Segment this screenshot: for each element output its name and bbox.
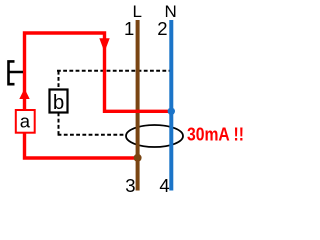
junction dot on N — [168, 108, 175, 115]
wire: dashed link to toroid — [58, 134, 126, 136]
N conductor (blue) — [169, 20, 173, 191]
toroid ellipse (RCD core) — [126, 125, 183, 147]
wire: red fault loop (top + right + to N) — [25, 33, 170, 111]
wire: dashed horizontal run from b to N line — [57, 70, 173, 72]
junction dot on L — [134, 154, 142, 162]
svg-text:4: 4 — [159, 175, 169, 196]
earth electrode symbol — [7, 60, 23, 85]
device box b — [50, 90, 68, 113]
device box a — [16, 110, 35, 133]
svg-text:2: 2 — [157, 18, 167, 39]
L conductor (brown) — [136, 20, 140, 191]
svg-text:b: b — [53, 91, 64, 114]
arrow up on left red wire — [19, 89, 29, 100]
arrow down on right red wire — [99, 38, 109, 52]
wire: dashed link from b down — [58, 113, 60, 135]
wire: red from box a down and along bottom to L — [25, 132, 138, 158]
svg-text:3: 3 — [125, 175, 135, 196]
svg-text:1: 1 — [124, 18, 134, 39]
svg-text:30mA !!: 30mA !! — [187, 124, 244, 145]
svg-text:a: a — [20, 110, 31, 131]
wire: dashed link from b up to horizontal run — [58, 71, 60, 90]
